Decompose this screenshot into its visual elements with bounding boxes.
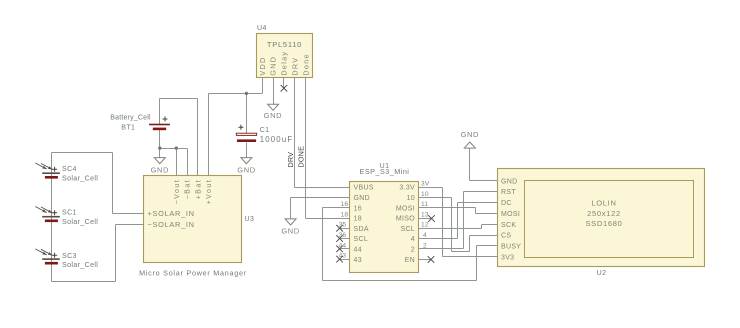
svg-text:10: 10 xyxy=(407,195,415,202)
svg-text:10: 10 xyxy=(421,191,429,198)
svg-text:BUSY: BUSY xyxy=(501,244,521,251)
svg-text:44: 44 xyxy=(354,247,362,254)
svg-text:2: 2 xyxy=(411,247,415,254)
svg-text:RST: RST xyxy=(501,189,516,196)
svg-text:+SOLAR_IN: +SOLAR_IN xyxy=(148,209,195,218)
svg-text:18: 18 xyxy=(354,216,362,223)
svg-text:4: 4 xyxy=(411,236,415,243)
svg-text:SC3: SC3 xyxy=(62,253,77,260)
svg-text:SSD1680: SSD1680 xyxy=(585,219,622,228)
svg-text:36: 36 xyxy=(339,232,347,239)
svg-text:44: 44 xyxy=(339,242,347,249)
svg-text:43: 43 xyxy=(354,257,362,264)
svg-text:MOSI: MOSI xyxy=(501,211,520,218)
svg-text:BT1: BT1 xyxy=(121,124,135,131)
svg-text:+Bat: +Bat xyxy=(195,179,202,200)
svg-text:GND: GND xyxy=(237,165,255,174)
svg-text:1000uF: 1000uF xyxy=(260,135,294,144)
svg-text:C1: C1 xyxy=(260,127,270,134)
svg-text:Solar_Cell: Solar_Cell xyxy=(62,173,98,182)
svg-text:GND: GND xyxy=(151,165,169,174)
svg-text:250x122: 250x122 xyxy=(587,209,621,218)
svg-text:DRV: DRV xyxy=(286,152,295,168)
svg-text:U3: U3 xyxy=(245,216,255,223)
svg-text:SC4: SC4 xyxy=(62,166,77,173)
svg-text:TPL5110: TPL5110 xyxy=(267,40,302,49)
svg-text:EN: EN xyxy=(405,257,415,264)
svg-text:GND: GND xyxy=(281,226,299,235)
svg-text:−Bat: −Bat xyxy=(185,179,192,200)
svg-text:Micro Solar Power Manager: Micro Solar Power Manager xyxy=(139,268,247,277)
svg-text:18: 18 xyxy=(341,211,349,218)
svg-text:U2: U2 xyxy=(597,270,607,277)
svg-text:43: 43 xyxy=(339,253,347,260)
svg-text:Delay: Delay xyxy=(279,51,288,76)
svg-text:2: 2 xyxy=(423,242,427,249)
svg-text:SDA: SDA xyxy=(354,226,369,233)
svg-text:SCL: SCL xyxy=(354,236,369,243)
svg-text:16: 16 xyxy=(341,201,349,208)
svg-text:Solar_Cell: Solar_Cell xyxy=(62,260,98,269)
svg-text:VBUS: VBUS xyxy=(354,185,374,192)
svg-text:ESP_S3_Mini: ESP_S3_Mini xyxy=(360,167,410,176)
svg-text:SCK: SCK xyxy=(501,222,516,229)
svg-text:DC: DC xyxy=(501,200,512,207)
svg-text:3V3: 3V3 xyxy=(501,254,514,261)
svg-text:3V: 3V xyxy=(421,181,430,188)
svg-text:GND: GND xyxy=(354,195,370,202)
svg-text:GND: GND xyxy=(269,56,278,76)
svg-text:13: 13 xyxy=(421,211,429,218)
svg-text:4: 4 xyxy=(423,232,427,239)
svg-text:Done: Done xyxy=(301,53,310,75)
svg-text:−Vout: −Vout xyxy=(174,179,181,205)
svg-text:GND: GND xyxy=(264,111,282,120)
svg-text:12: 12 xyxy=(421,222,429,229)
svg-text:VDD: VDD xyxy=(258,57,267,76)
svg-text:MISO: MISO xyxy=(396,216,415,223)
svg-text:35: 35 xyxy=(339,222,347,229)
svg-text:16: 16 xyxy=(354,205,362,212)
svg-text:GND: GND xyxy=(461,130,479,139)
svg-text:LOLIN: LOLIN xyxy=(591,199,616,208)
svg-text:U4: U4 xyxy=(257,25,267,32)
svg-text:3.3V: 3.3V xyxy=(399,185,415,192)
svg-text:MOSI: MOSI xyxy=(396,205,415,212)
svg-text:SCL: SCL xyxy=(400,226,415,233)
svg-text:11: 11 xyxy=(421,201,428,208)
svg-text:DRV: DRV xyxy=(290,57,299,76)
svg-text:+Vout: +Vout xyxy=(206,179,213,205)
svg-text:SC1: SC1 xyxy=(62,210,77,217)
svg-text:Battery_Cell: Battery_Cell xyxy=(110,114,151,121)
svg-text:Solar_Cell: Solar_Cell xyxy=(62,217,98,226)
svg-text:GND: GND xyxy=(501,178,517,185)
svg-text:DONE: DONE xyxy=(297,146,306,168)
svg-text:CS: CS xyxy=(501,233,511,240)
svg-text:−SOLAR_IN: −SOLAR_IN xyxy=(148,220,195,229)
